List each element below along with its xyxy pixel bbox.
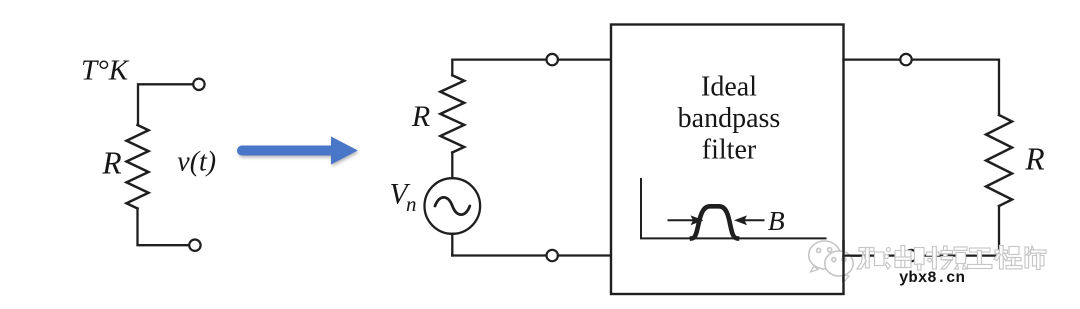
svg-text:filter: filter (702, 135, 757, 166)
bandwidth arrow (right, pointing left) (746, 219, 764, 221)
wire bottom right corner (917, 206, 999, 256)
char 程 (995, 250, 1008, 253)
filter box U1 (611, 25, 844, 295)
resistor R3 (load) (986, 115, 1012, 206)
char 加 (859, 248, 874, 252)
svg-text:R: R (411, 100, 430, 133)
wire top-left L corner (138, 84, 193, 125)
wire top right (box to load) (844, 58, 901, 60)
svg-text:v(t): v(t) (177, 147, 216, 178)
terminal (open circle, bottom left circuit) (189, 240, 200, 251)
watermark WeChat logo (two speech bubbles) (809, 241, 854, 282)
wire resistor to source (451, 153, 453, 179)
wire bottom right, terminal to box (844, 254, 906, 256)
bandwidth arrow (left, pointing right) (669, 219, 693, 221)
sine symbol inside source (435, 197, 470, 214)
resistor R2 (middle branch) (440, 75, 464, 152)
wire bottom-left L corner (138, 209, 189, 246)
response graph axes (641, 179, 826, 238)
svg-text:bandpass: bandpass (678, 103, 781, 134)
terminal (open circle, top left circuit) (193, 79, 204, 90)
svg-text:ybx8.cn: ybx8.cn (899, 269, 965, 287)
svg-text:R: R (1024, 142, 1044, 177)
terminal (open circle, bottom middle) (547, 250, 558, 261)
bandpass response bump (692, 206, 737, 238)
watermark text 加油射频工程师 (outlined glyph shapes) (857, 246, 1046, 271)
wire top right corner down (912, 60, 999, 115)
arrow (blue, pointing right) (237, 137, 358, 165)
terminal (open circle, top right) (900, 54, 911, 65)
char 油 (887, 248, 891, 252)
svg-text:T°K: T°K (81, 55, 130, 87)
source V_n (AC noise source circle) (425, 178, 481, 234)
wire source to bottom (451, 234, 453, 256)
char 师 (1025, 247, 1029, 268)
svg-text:Ideal: Ideal (701, 71, 757, 102)
wire top middle, terminal to box (558, 58, 611, 60)
char 频 (944, 246, 948, 260)
wire (box edge redrawn over logo) (842, 241, 844, 281)
char 射 (915, 248, 925, 265)
svg-text:B: B (768, 205, 785, 236)
terminal (open circle, bottom right) (906, 250, 917, 261)
resistor R1 (left) (127, 125, 149, 209)
wire (bottom-right wire redrawn over logo) (844, 254, 860, 256)
svg-text:R: R (101, 146, 121, 181)
svg-text:Vn: Vn (390, 179, 417, 217)
wire bottom middle (452, 254, 546, 255)
wire bottom middle, terminal to box (558, 254, 611, 256)
char 工 (970, 248, 991, 252)
terminal (open circle, top middle) (547, 54, 558, 65)
wire top middle (source branch to filter box) (452, 60, 546, 76)
